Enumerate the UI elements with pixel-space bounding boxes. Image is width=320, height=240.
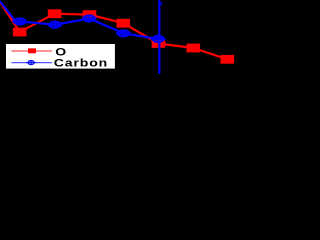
- svg-text:Carbon: Carbon: [54, 57, 108, 69]
- blue series Carbon: line: [0, 1, 158, 39]
- blue nub near top of vertical line: [160, 3, 162, 5]
- blue vertical line: [158, 0, 160, 74]
- blue series Carbon: circle-plus markers: [12, 15, 165, 43]
- legend row 1: red line + square: [12, 50, 53, 52]
- red series O: line: [0, 2, 227, 59]
- red series O: square markers: [13, 9, 234, 63]
- legend row 2: blue line + circle-plus: [12, 62, 53, 64]
- legend box: [5, 42, 117, 70]
